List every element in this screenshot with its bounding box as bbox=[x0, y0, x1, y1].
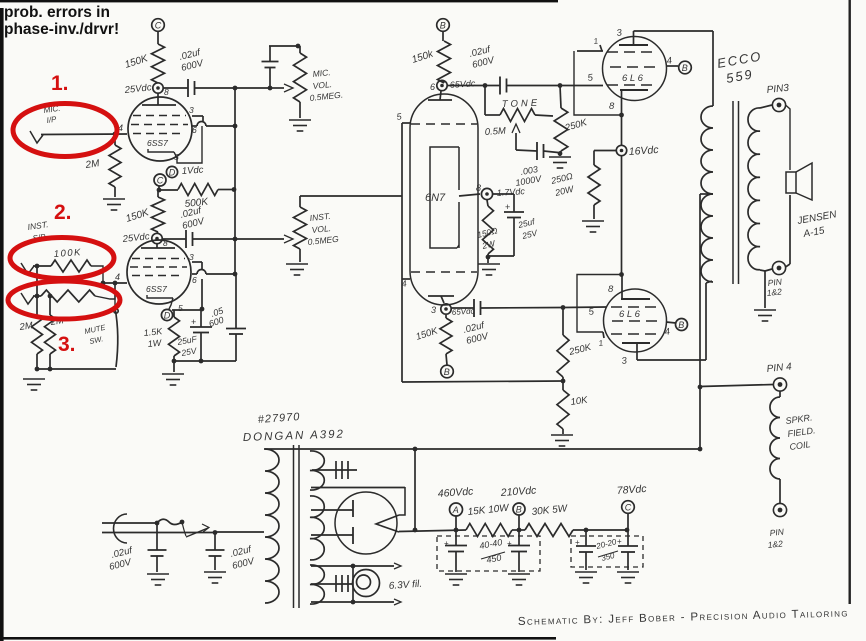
node 65Vdc bottom bbox=[431, 304, 475, 317]
svg-text:3.: 3. bbox=[58, 333, 76, 356]
svg-text:1.5K: 1.5K bbox=[143, 326, 163, 338]
svg-text:B: B bbox=[444, 367, 450, 377]
svg-text:MIC.: MIC. bbox=[312, 67, 331, 79]
svg-text:150Ω: 150Ω bbox=[476, 225, 499, 240]
svg-text:+: + bbox=[191, 317, 196, 327]
6L6no2 screen dashes bbox=[612, 320, 660, 322]
OT core bbox=[733, 101, 739, 284]
resistor 1.5K 1W bbox=[169, 310, 180, 361]
label 6L6 no2 bbox=[619, 309, 641, 320]
resistor 150K stage2 plate bbox=[152, 190, 165, 234]
label ECCO 559 bbox=[716, 48, 763, 86]
svg-text:PIN 4: PIN 4 bbox=[766, 361, 792, 375]
wire B+ to PIN4 bbox=[700, 385, 773, 387]
svg-text:10K: 10K bbox=[570, 395, 589, 408]
svg-text:0.5M: 0.5M bbox=[484, 126, 506, 138]
ground stage2 bbox=[162, 361, 184, 385]
red ellipse 3 bbox=[8, 281, 120, 319]
6N7 top plate bbox=[428, 91, 452, 100]
svg-text:20-20: 20-20 bbox=[594, 537, 618, 551]
6N7 bottom plate bbox=[428, 296, 454, 303]
ground line cap 2 bbox=[204, 572, 226, 583]
label INST S/P bbox=[27, 219, 49, 243]
svg-text:6 L 6: 6 L 6 bbox=[619, 309, 641, 320]
wire 6N7 pin5 stub bbox=[396, 111, 410, 123]
scan border left bbox=[0, 8, 4, 641]
PT primary winding bbox=[265, 449, 279, 603]
inst input jack 2 bbox=[21, 293, 34, 304]
svg-text:B: B bbox=[678, 320, 684, 330]
6L6no1 pin1 stub bbox=[577, 36, 603, 51]
svg-text:600: 600 bbox=[208, 315, 225, 329]
label .02uf 600V top bbox=[468, 44, 497, 71]
node bus inst wire bbox=[233, 237, 238, 242]
svg-text:FIELD.: FIELD. bbox=[787, 425, 816, 439]
svg-text:20W: 20W bbox=[553, 183, 576, 198]
vertical 6N7 input bbox=[401, 123, 403, 382]
label pin4 stage1 bbox=[118, 123, 123, 133]
mic input jack bbox=[30, 131, 43, 143]
svg-text:16Vdc: 16Vdc bbox=[628, 144, 659, 158]
wire mic pot top rail bbox=[269, 44, 300, 53]
OT secondary bottom lead bbox=[760, 269, 772, 271]
svg-text:1W: 1W bbox=[147, 337, 163, 349]
PT HV lead bottom bbox=[311, 534, 353, 536]
svg-text:6 L 6: 6 L 6 bbox=[622, 73, 644, 84]
6L6no2 cathode tie bbox=[577, 272, 624, 348]
V1 pin5 tie bbox=[174, 126, 202, 163]
resistor 500K interstage bbox=[157, 184, 237, 196]
OT primary winding lower bbox=[701, 194, 713, 282]
svg-text:+: + bbox=[575, 538, 580, 547]
6L6no2 plate bbox=[621, 343, 650, 367]
cap line filter 2 bbox=[206, 533, 225, 571]
label 40-40 450 bbox=[479, 537, 505, 565]
PT HV lead top bbox=[311, 509, 353, 511]
svg-text:TONE: TONE bbox=[502, 98, 541, 110]
svg-text:I/P: I/P bbox=[46, 115, 58, 125]
svg-text:5: 5 bbox=[178, 303, 183, 313]
wire mute bus bbox=[35, 367, 116, 372]
label pin5 6L6no2 bbox=[588, 306, 595, 318]
V2 pin6 wire to bus bbox=[192, 270, 235, 286]
red number 2 bbox=[54, 201, 72, 224]
V2 grid dashes bbox=[130, 259, 187, 276]
svg-text:C: C bbox=[157, 176, 164, 186]
marker B 6L6no2 bbox=[676, 319, 688, 331]
node 65Vdc top bbox=[430, 78, 476, 92]
cap .02uf stage2 coupling bbox=[162, 230, 284, 248]
label SPKR FIELD COIL bbox=[785, 412, 816, 452]
resistor 2M left bbox=[32, 266, 43, 369]
wire cathode bus stage2 bbox=[172, 309, 202, 311]
label 6L6 no1 bbox=[622, 73, 644, 84]
node bus pin6 stage2 bbox=[233, 272, 238, 277]
label INST VOL 0.5MEG bbox=[307, 211, 339, 247]
label TONE bbox=[502, 98, 541, 110]
cap 40-40 A bbox=[444, 530, 467, 572]
label 250ohm 20W bbox=[549, 171, 576, 198]
ground 2M stage1 bbox=[103, 199, 125, 210]
svg-text:8: 8 bbox=[476, 183, 481, 193]
wire AC feed bbox=[215, 531, 264, 533]
svg-text:6: 6 bbox=[430, 82, 435, 92]
label DONGAN A392 bbox=[243, 428, 345, 444]
svg-text:559: 559 bbox=[725, 66, 755, 86]
OT primary winding upper bbox=[701, 106, 713, 194]
svg-text:25V: 25V bbox=[520, 227, 539, 241]
resistor 150k 6N7 plate bbox=[438, 32, 451, 84]
resistor 250ohm 20W bbox=[588, 151, 616, 220]
svg-text:1: 1 bbox=[593, 36, 599, 46]
mute switch lever bbox=[114, 283, 118, 367]
node grid stage1 bbox=[113, 132, 118, 137]
svg-text:+: + bbox=[505, 202, 510, 212]
label 6N7 bbox=[425, 192, 446, 204]
label 25uf 25V 6n7 bbox=[516, 216, 539, 241]
V1 cathode bbox=[148, 149, 174, 152]
wire rectifier out bbox=[399, 530, 466, 532]
tube 6L6 no2 bbox=[604, 289, 667, 352]
supply marker C top bbox=[152, 19, 165, 32]
label 2M left bbox=[18, 320, 34, 333]
6L6no2 cathode bbox=[608, 275, 650, 300]
label .02uf 600V cap2 bbox=[229, 544, 257, 572]
svg-text:INST.: INST. bbox=[309, 211, 331, 223]
label 250K bottom bbox=[567, 342, 593, 358]
red ellipse 2 bbox=[10, 238, 114, 279]
svg-text:6: 6 bbox=[192, 275, 197, 285]
label pin8 stage2 bbox=[163, 238, 168, 248]
supply marker B 6n7 bbox=[437, 19, 450, 32]
wire 16Vdc down bbox=[621, 156, 623, 275]
6L6no1 plate bbox=[616, 27, 648, 45]
svg-text:8: 8 bbox=[608, 284, 614, 295]
svg-text:1.: 1. bbox=[51, 72, 69, 95]
ground inst pot bbox=[286, 264, 308, 275]
tube V1 6SS7 bbox=[128, 97, 192, 161]
svg-text:+: + bbox=[507, 539, 512, 548]
resistor 150ohm 2W bbox=[483, 200, 494, 257]
PT 6.3V bottom lead bbox=[311, 599, 401, 605]
svg-text:40-40: 40-40 bbox=[479, 537, 503, 551]
PT 6.3V top lead bbox=[311, 563, 401, 569]
svg-text:5: 5 bbox=[587, 72, 594, 84]
wire inst pot top to 6N7 bbox=[300, 195, 402, 197]
tube 6L6 no1 bbox=[603, 37, 667, 101]
scan border right bbox=[849, 0, 851, 604]
svg-text:3: 3 bbox=[431, 305, 436, 315]
ground OT secondary bbox=[754, 271, 776, 321]
V1 pin3 stub bbox=[189, 105, 203, 121]
wire filter line bbox=[454, 528, 459, 533]
rectifier plates bbox=[352, 500, 354, 544]
label .02uf 600V interstage bbox=[179, 205, 207, 232]
svg-text:6N7: 6N7 bbox=[425, 192, 446, 204]
6N7 pin8 stub bbox=[459, 194, 480, 196]
V2 pin5 lead bbox=[169, 298, 183, 313]
svg-text:6SS7: 6SS7 bbox=[146, 284, 167, 294]
svg-text:1: 1 bbox=[598, 338, 604, 348]
wire grid2 into tube bbox=[563, 306, 606, 309]
red number 1 bbox=[51, 72, 69, 95]
label 150K stage1 bbox=[124, 53, 151, 71]
wire plate2 to OT bbox=[637, 281, 712, 360]
PT 6.3V mid lead bbox=[311, 575, 352, 592]
OT secondary top lead bbox=[760, 105, 772, 108]
wire B+ center tap down bbox=[698, 194, 703, 449]
node 16Vdc bbox=[616, 144, 659, 158]
svg-text:150K: 150K bbox=[415, 325, 440, 343]
OT center tap bbox=[700, 193, 713, 195]
label 250K tone bbox=[563, 117, 589, 134]
label 150K bottom bbox=[415, 325, 440, 343]
svg-text:VOL.: VOL. bbox=[311, 223, 331, 235]
wire 6N7 pin4 stub bbox=[401, 278, 410, 289]
label PIN 1and2 bottom bbox=[767, 526, 785, 550]
terminal PIN3 bbox=[772, 98, 785, 111]
wire HV rail top bbox=[264, 447, 702, 452]
label PIN3 bbox=[766, 83, 790, 96]
svg-text:INST.: INST. bbox=[27, 219, 49, 232]
svg-text:B: B bbox=[516, 505, 522, 515]
svg-text:25V: 25V bbox=[180, 345, 199, 358]
marker C stage1 b+ bbox=[154, 174, 166, 186]
resistor 2M stage1 bbox=[109, 134, 121, 197]
6L6no2 grid dashes bbox=[611, 306, 659, 308]
6N7 inner structure bbox=[430, 147, 459, 248]
6L6no1 beam dashes bbox=[607, 51, 657, 53]
svg-text:+: + bbox=[617, 537, 622, 546]
ground tone bbox=[549, 151, 571, 168]
label 10K bbox=[570, 395, 589, 408]
svg-text:150K: 150K bbox=[125, 207, 152, 225]
svg-text:DONGAN A392: DONGAN A392 bbox=[243, 428, 345, 444]
V2 pin3 stub bbox=[189, 252, 202, 269]
wire 65Vdc to grid1 bbox=[447, 83, 500, 88]
cap 40-40 B bbox=[507, 530, 530, 572]
speaker jensen bbox=[786, 163, 812, 200]
label MIC I/P bbox=[43, 104, 61, 125]
6L6no2 beam dashes bbox=[611, 333, 661, 335]
svg-text:COIL: COIL bbox=[789, 439, 811, 452]
PT winding 6.3V bbox=[310, 565, 324, 604]
V1 label 6SS7 bbox=[147, 138, 168, 148]
svg-text:MUTE: MUTE bbox=[84, 323, 108, 336]
resistor 150K stage1 plate bbox=[152, 32, 165, 84]
resistor 10K bbox=[557, 381, 569, 434]
ac plug bbox=[114, 514, 127, 543]
node filter B bbox=[517, 528, 522, 533]
svg-text:ECCO: ECCO bbox=[716, 48, 763, 71]
svg-text:1&2: 1&2 bbox=[766, 286, 782, 298]
V1 grid dashes bbox=[131, 116, 188, 134]
svg-text:3: 3 bbox=[616, 27, 623, 39]
ground inst inputs bbox=[23, 379, 45, 390]
cap 20-20 left bbox=[575, 530, 596, 570]
tube V2 6SS7 bbox=[127, 240, 191, 304]
svg-text:SPKR.: SPKR. bbox=[785, 412, 813, 426]
svg-text:A: A bbox=[452, 505, 459, 515]
V2 cathode bbox=[147, 295, 173, 298]
OT secondary winding bbox=[748, 108, 760, 270]
terminal PIN 1and2 top bbox=[772, 261, 785, 274]
resistor 30K 5W bbox=[512, 524, 629, 537]
PT winding HV bbox=[310, 496, 324, 560]
marker B bottom bbox=[441, 365, 454, 378]
svg-text:1Vdc: 1Vdc bbox=[181, 164, 204, 177]
svg-text:150K: 150K bbox=[124, 53, 151, 71]
svg-text:2.: 2. bbox=[54, 201, 72, 224]
wire B+ riser bbox=[413, 449, 418, 532]
6L6no2 pin4 bbox=[664, 322, 676, 338]
dashed box 20-20 bbox=[571, 536, 643, 567]
svg-text:30K 5W: 30K 5W bbox=[531, 503, 569, 518]
cap .02uf 6L6 top coupling bbox=[500, 77, 603, 95]
label 150k 6n7 bbox=[411, 48, 436, 65]
terminal PIN 1and2 bottom bbox=[773, 503, 786, 516]
svg-text:4: 4 bbox=[115, 272, 120, 282]
svg-text:PIN: PIN bbox=[769, 526, 785, 538]
svg-text:PIN3: PIN3 bbox=[766, 83, 790, 96]
label 0.5M bbox=[484, 126, 506, 138]
svg-text:250K: 250K bbox=[567, 342, 593, 358]
svg-text:B: B bbox=[440, 21, 446, 31]
svg-text:0.5MEG: 0.5MEG bbox=[307, 234, 339, 247]
svg-text:250K: 250K bbox=[563, 117, 589, 134]
annotation headline bbox=[4, 4, 119, 38]
svg-text:25Vdc: 25Vdc bbox=[123, 82, 152, 96]
ground line cap 1 bbox=[147, 574, 169, 585]
wire stage2 grid bbox=[101, 272, 127, 285]
node pin8 1.7Vdc bbox=[476, 183, 526, 200]
ground 250ohm bbox=[582, 221, 604, 232]
svg-text:phase-inv./drvr!: phase-inv./drvr! bbox=[4, 21, 119, 38]
6L6no1 screen dashes bbox=[610, 66, 659, 68]
V1 plate bbox=[142, 93, 176, 105]
wire field coil to pin12 bbox=[779, 479, 781, 503]
label 500K bbox=[184, 196, 210, 210]
ground cap 20-20 right bbox=[617, 572, 639, 583]
svg-text:C: C bbox=[625, 503, 632, 513]
V2 plate bbox=[141, 244, 175, 249]
label 150K stage2 bbox=[125, 207, 152, 225]
6L6no1 cathode tie bbox=[574, 51, 624, 117]
ground mic pot bbox=[289, 120, 311, 131]
svg-text:prob. errors in: prob. errors in bbox=[4, 4, 110, 21]
label .02uf 600V stage1 bbox=[178, 47, 206, 74]
label 25uF 25V bbox=[176, 334, 199, 359]
svg-text:3: 3 bbox=[189, 105, 194, 115]
marker D 1Vdc stage1 bbox=[166, 164, 204, 177]
svg-text:Schematic By: Jeff Bober - Pre: Schematic By: Jeff Bober - Precision Aud… bbox=[518, 607, 849, 628]
dashed box 40-40 bbox=[437, 536, 540, 571]
label .003 1000V bbox=[515, 164, 543, 188]
svg-text:3: 3 bbox=[189, 252, 194, 262]
svg-text:SW.: SW. bbox=[89, 334, 104, 346]
label .05 600 bbox=[208, 305, 226, 329]
tube 6N7 envelope bbox=[410, 94, 478, 305]
resistor 15K 10W bbox=[466, 524, 512, 537]
label MIC VOL 0.5MEG bbox=[309, 67, 343, 103]
resistor 2M right bbox=[45, 294, 56, 369]
marker D stage2 bbox=[161, 309, 172, 320]
label pin5 6L6no1 bbox=[587, 72, 594, 84]
marker C 78Vdc bbox=[616, 483, 647, 530]
6L6no1 grid dashes bbox=[607, 84, 657, 86]
cap 20-20 right bbox=[617, 530, 638, 570]
ground 10K bbox=[551, 435, 573, 446]
svg-text:D: D bbox=[164, 311, 171, 321]
svg-text:150k: 150k bbox=[411, 48, 436, 65]
svg-text:5: 5 bbox=[396, 111, 403, 122]
svg-text:350: 350 bbox=[600, 551, 616, 563]
wire mic input to grid bbox=[41, 133, 127, 136]
wire cathode1 down bbox=[621, 115, 623, 145]
6L6no1 cathode bbox=[609, 90, 648, 115]
label 2M right bbox=[49, 315, 65, 328]
wire feedback bottom bbox=[402, 379, 565, 384]
wire 6n7 cathode bus bbox=[486, 255, 514, 260]
ground cap 20-20 left bbox=[575, 572, 597, 583]
label MUTE SW bbox=[84, 323, 108, 346]
tone cap drop bbox=[484, 86, 486, 116]
red ellipse 1 bbox=[13, 104, 117, 157]
svg-text:#27970: #27970 bbox=[257, 411, 300, 426]
scan border bottom bbox=[0, 637, 556, 640]
label 2M stage1 bbox=[84, 158, 101, 171]
arrow into inst pot wiper bbox=[284, 235, 293, 243]
svg-text:D: D bbox=[169, 168, 176, 178]
wire stage2 cathode ground bus bbox=[172, 359, 236, 364]
label 1.5K 1W bbox=[143, 326, 163, 349]
svg-text:65Vdc: 65Vdc bbox=[449, 78, 476, 90]
cap .05 600 bus bbox=[226, 274, 246, 361]
svg-text:6.3V fil.: 6.3V fil. bbox=[388, 579, 422, 592]
svg-text:5: 5 bbox=[588, 306, 595, 318]
red number 3 bbox=[58, 333, 76, 356]
label 150ohm 2W bbox=[476, 225, 499, 251]
node bus pin6 stage1 bbox=[233, 124, 238, 129]
svg-text:8: 8 bbox=[609, 101, 615, 112]
tone wiper arrow bbox=[512, 124, 520, 150]
V1 plate node 25Vdc bbox=[123, 82, 163, 96]
label .02uf 600V cap1 bbox=[108, 545, 134, 573]
cap 25uF 25V stage2 bbox=[190, 310, 212, 361]
svg-text:1000V: 1000V bbox=[515, 173, 543, 188]
svg-text:1&2: 1&2 bbox=[767, 538, 783, 550]
svg-text:JENSEN: JENSEN bbox=[796, 209, 839, 227]
V2 pin3 drop bbox=[200, 279, 205, 311]
svg-text:+: + bbox=[444, 539, 449, 548]
inst input jack 1 bbox=[21, 263, 34, 274]
label 30K 5W bbox=[531, 503, 569, 518]
svg-text:1.7Vdc: 1.7Vdc bbox=[496, 186, 525, 198]
wire into mic pot wiper bbox=[270, 84, 293, 92]
svg-text:15K 10W: 15K 10W bbox=[467, 503, 511, 518]
6N7 dashed bottom bbox=[411, 271, 477, 273]
svg-text:B: B bbox=[682, 63, 688, 73]
svg-text:78Vdc: 78Vdc bbox=[616, 483, 647, 497]
rectifier beak bbox=[311, 487, 405, 532]
ac switch bbox=[182, 522, 209, 537]
label 20-20 350 bbox=[594, 537, 618, 563]
wire speaker to PIN12 bbox=[786, 195, 791, 267]
node cap to tone rail bbox=[268, 86, 273, 91]
bus vertical x235 bbox=[233, 86, 238, 274]
svg-text:6SS7: 6SS7 bbox=[147, 138, 168, 148]
marker A 460Vdc bbox=[437, 485, 474, 530]
